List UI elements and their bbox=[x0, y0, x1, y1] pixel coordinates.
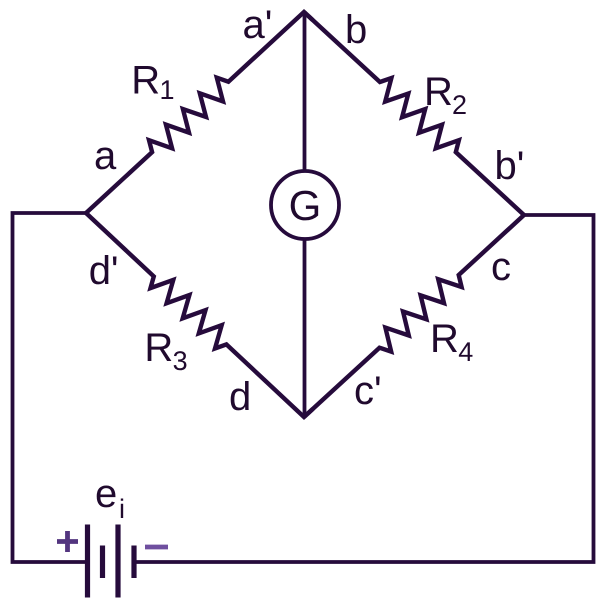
plus sign bbox=[57, 531, 78, 552]
svg-text:c: c bbox=[491, 245, 511, 289]
resistor R1 bbox=[86, 12, 313, 213]
svg-text:a': a' bbox=[243, 3, 273, 47]
resistor R4 bbox=[304, 215, 524, 417]
svg-text:b': b' bbox=[495, 144, 525, 188]
svg-text:3: 3 bbox=[173, 346, 188, 376]
svg-text:R: R bbox=[430, 317, 459, 361]
svg-text:R: R bbox=[144, 326, 173, 370]
svg-text:d: d bbox=[229, 375, 251, 419]
svg-text:G: G bbox=[289, 182, 322, 229]
battery ei plates bbox=[88, 525, 135, 598]
wire galvanometer top lead bbox=[303, 12, 307, 171]
svg-text:i: i bbox=[119, 494, 125, 524]
battery long plate 1 bbox=[85, 525, 90, 598]
svg-text:4: 4 bbox=[458, 337, 473, 367]
svg-text:c': c' bbox=[354, 369, 382, 413]
battery long plate 2 bbox=[115, 525, 120, 598]
svg-text:a: a bbox=[94, 134, 117, 178]
svg-text:R: R bbox=[131, 59, 160, 103]
svg-text:R: R bbox=[424, 70, 453, 114]
wire right loop bbox=[135, 215, 594, 562]
resistor R2 bbox=[304, 12, 524, 215]
svg-text:e: e bbox=[95, 472, 117, 516]
svg-text:1: 1 bbox=[160, 75, 175, 105]
galvanometer U1 circle bbox=[271, 171, 339, 239]
resistor R3 bbox=[86, 213, 313, 417]
svg-text:b: b bbox=[345, 8, 367, 52]
svg-text:2: 2 bbox=[452, 90, 467, 120]
battery short plate 2 bbox=[131, 546, 136, 579]
svg-text:d': d' bbox=[89, 249, 119, 293]
battery short plate 1 bbox=[100, 546, 105, 579]
wire galvanometer bottom lead bbox=[303, 239, 307, 417]
minus sign bbox=[145, 545, 168, 550]
wire left loop bbox=[13, 213, 87, 562]
